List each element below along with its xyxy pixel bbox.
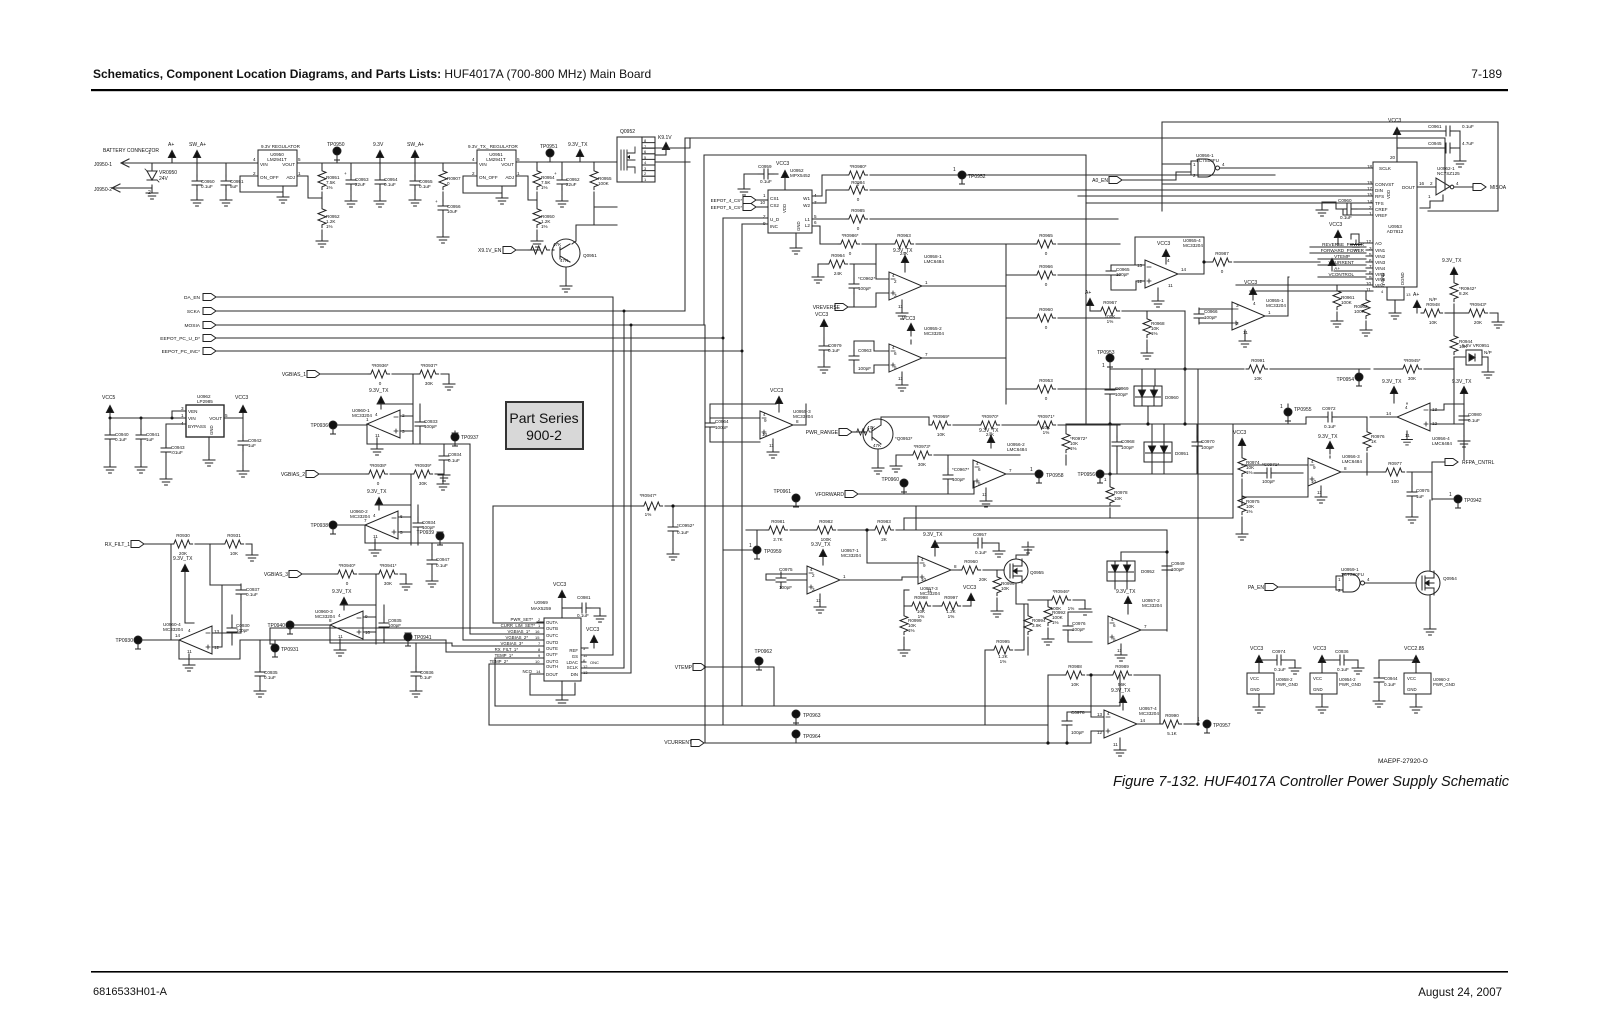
svg-text:PWR_SET*: PWR_SET* [511,617,534,622]
power arrow VCC3 [1162,250,1169,263]
svg-text:TP0930: TP0930 [115,638,133,644]
svg-text:5: 5 [814,214,817,219]
resistor R0931 [222,540,244,548]
svg-text:OUTE: OUTE [546,646,558,651]
svg-text:VCC3: VCC3 [1388,118,1402,124]
svg-text:TP0936: TP0936 [310,423,328,429]
testpoint TP0961 [792,494,800,507]
wire TEMP_2 loop [489,664,1048,725]
testpoint TP0936 [329,421,337,434]
svg-text:47K: 47K [553,242,562,247]
svg-text:VCC3: VCC3 [902,316,916,322]
capacitor C0955 [414,163,416,195]
capacitor C0980 [1463,404,1465,412]
resistor R0976 vertical [1366,417,1368,429]
zener VR0951 [1466,350,1482,365]
svg-text:NC7SZ125: NC7SZ125 [1437,171,1460,176]
svg-text:9.3V_TX: 9.3V_TX [979,428,999,434]
svg-text:R0995: R0995 [996,639,1010,644]
svg-text:R0984: R0984 [851,180,865,185]
svg-text:0.1uF: 0.1uF [115,437,127,442]
svg-text:MC33204: MC33204 [1139,711,1159,716]
resistor R0972 vertical [1065,425,1067,431]
svg-text:0.1uF: 0.1uF [1340,215,1352,220]
svg-text:5.1K: 5.1K [1167,731,1177,736]
svg-text:R0997: R0997 [944,595,958,600]
capacitor C0935 [259,640,261,668]
power arrow 9.3V_TX top [1450,268,1457,281]
svg-text:A+: A+ [1334,266,1340,271]
svg-text:VIN2: VIN2 [1375,254,1386,259]
connector MISOA [1454,186,1474,188]
svg-text:4: 4 [1253,301,1256,306]
capacitor C0930 [231,615,233,645]
svg-text:C0978: C0978 [1071,710,1085,715]
resistor R0961 vertical [1336,285,1338,288]
svg-text:5: 5 [978,481,981,486]
svg-text:OUTH: OUTH [546,664,558,669]
resistor 47K base [516,249,540,251]
svg-text:0.1uF: 0.1uF [420,675,432,680]
svg-text:0.1uF: 0.1uF [828,348,840,353]
svg-text:0: 0 [379,381,382,386]
svg-text:*R0971*: *R0971* [1037,414,1054,419]
svg-text:C0968: C0968 [1121,439,1135,444]
svg-text:13: 13 [1406,292,1411,297]
wire TEMP_1 loop [495,658,1120,706]
svg-text:1%: 1% [326,224,333,229]
svg-text:0: 0 [346,581,349,586]
resistor R0970 [978,421,1000,429]
power arrow VCC3 adc [1393,128,1400,141]
svg-text:AO: AO [1375,241,1382,246]
svg-text:VTEMP: VTEMP [675,665,693,671]
testpoint TP0952 [958,171,966,184]
svg-text:OUTC: OUTC [546,633,558,638]
wire fet drain up to rfpa node [1429,500,1431,571]
svg-text:9.3V_TX: 9.3V_TX [893,248,913,254]
svg-text:1%: 1% [326,185,333,190]
connector VREVERSE [835,304,848,311]
capacitor C0952b [672,506,674,549]
svg-text:14: 14 [1386,411,1392,416]
svg-text:*R0939*: *R0939* [414,463,431,468]
connector A0_EN [1109,177,1122,184]
svg-text:4: 4 [472,157,475,162]
svg-text:ON_OFF: ON_OFF [479,175,498,180]
resistor R0947 [493,505,641,507]
resistor R0945 [1374,368,1400,370]
svg-text:TP0953: TP0953 [1097,350,1115,356]
svg-text:MC33204: MC33204 [315,614,335,619]
svg-text:VCC5: VCC5 [102,395,116,401]
svg-text:0: 0 [849,251,852,256]
testpoint TP0962 [755,657,763,670]
svg-text:100pF: 100pF [1121,445,1134,450]
wire U_D INC taps [723,218,768,224]
capacitor C0970 [1196,424,1198,474]
capacitor C0951 [225,163,227,195]
svg-text:1%: 1% [1068,606,1075,611]
connector RX_FILT_1 [131,541,144,548]
svg-text:U0969: U0969 [534,600,548,605]
svg-text:CREF: CREF [1375,207,1388,212]
svg-text:1%: 1% [1107,319,1114,324]
svg-text:Q0952: Q0952 [620,129,635,135]
svg-text:RX_FILT_1: RX_FILT_1 [105,542,130,548]
resistor R0989 [1091,674,1110,676]
svg-text:1%: 1% [541,224,548,229]
svg-text:56K: 56K [1118,682,1127,687]
svg-text:12: 12 [583,664,588,669]
svg-text:*C0962*: *C0962* [858,276,875,281]
svg-text:14: 14 [1181,267,1187,272]
resistor R0954 [536,162,538,200]
svg-text:0: 0 [1045,325,1048,330]
svg-text:20K: 20K [1474,320,1483,325]
svg-text:100pF: 100pF [1262,479,1275,484]
svg-text:DOUT: DOUT [1402,185,1415,190]
svg-text:EEPOT_4_CS*: EEPOT_4_CS* [711,198,743,203]
svg-text:100pF: 100pF [388,623,401,628]
svg-text:6: 6 [814,220,817,225]
svg-text:2: 2 [1338,588,1341,593]
svg-text:MC33204: MC33204 [352,413,372,418]
svg-text:1: 1 [953,167,956,173]
svg-text:0: 0 [1221,269,1224,274]
svg-text:0.1uF: 0.1uF [1384,682,1396,687]
svg-text:1: 1 [298,171,301,176]
svg-text:11: 11 [375,433,380,438]
svg-text:VGBIAS_2: VGBIAS_2 [281,472,305,478]
svg-text:ADJ: ADJ [286,175,295,180]
power arrow VCC3 r0974 [1238,439,1245,452]
svg-text:SCLK: SCLK [567,665,578,670]
capacitor C0936 [415,643,417,668]
svg-text:4: 4 [375,412,378,417]
svg-text:2: 2 [472,171,475,176]
svg-text:1: 1 [181,413,184,418]
svg-text:C0957: C0957 [973,532,987,537]
footer rule [91,971,1508,973]
resistor R0963 [892,240,914,248]
svg-text:9.3V_TX: 9.3V_TX [923,532,943,538]
power arrow 9.3V_TX [901,256,908,269]
svg-text:9.3V_TX: 9.3V_TX [367,489,387,495]
svg-text:*R0947*: *R0947* [639,493,656,498]
capacitor C0966 [1199,309,1233,323]
svg-text:1%: 1% [1043,430,1050,435]
svg-text:ADJ: ADJ [505,175,514,180]
svg-text:R0964: R0964 [831,253,845,258]
svg-text:LMC6484: LMC6484 [1342,459,1362,464]
op-amp U0955-2 [889,344,922,372]
svg-text:22uF: 22uF [355,182,366,187]
svg-text:DIN: DIN [571,672,578,677]
power arrow 9.3V [376,151,383,164]
svg-text:1: 1 [1428,194,1431,199]
svg-text:VGBIAS_1*: VGBIAS_1* [508,629,531,634]
svg-text:16: 16 [1419,181,1425,186]
capacitor C0943 [161,442,171,458]
dual diode D0950 [1134,386,1162,406]
svg-text:14: 14 [1140,718,1146,723]
svg-text:9.3V_TX: 9.3V_TX [173,556,193,562]
svg-text:*C0952*: *C0952* [677,523,694,528]
connector RFPA_CNTRL [1432,462,1446,500]
testpoint TP0951 [546,149,554,162]
svg-text:C0974: C0974 [1272,649,1286,654]
wire output [922,244,1006,404]
svg-text:15: 15 [535,635,540,640]
svg-text:VREF: VREF [1375,213,1387,218]
svg-text:DOUT: DOUT [546,672,559,677]
connector VFORWARD [845,491,858,498]
AGND DGND labels [1380,272,1405,285]
svg-text:R0963: R0963 [897,233,911,238]
op-amp U0958-1 [889,272,922,300]
capacitor C0935b [383,605,385,643]
wire TP0957 vertical [1197,369,1199,724]
connector EEPOT_PC_INC* [203,348,216,355]
svg-text:100pF: 100pF [715,425,728,430]
resistor R0946 [1028,599,1049,601]
svg-text:10K: 10K [1001,586,1010,591]
wire output [1141,629,1167,631]
wire U0955-1 output [1265,277,1289,316]
resistor R0965 [1006,243,1034,245]
testpoint TP0955 [1284,408,1292,421]
svg-text:0.1uF: 0.1uF [677,530,689,535]
svg-text:TP0942: TP0942 [1464,498,1482,504]
mosfet Q0954 [1416,571,1440,595]
svg-text:9: 9 [764,418,767,423]
capacitor C0978 [1067,712,1091,743]
wire ON_OFF loop [240,176,283,192]
svg-text:1%: 1% [1000,659,1007,664]
svg-text:C0961: C0961 [1428,124,1442,129]
svg-text:*Q0953*: *Q0953* [895,436,913,441]
svg-text:10K: 10K [230,551,239,556]
svg-text:VCC: VCC [1250,676,1259,681]
power arrow 9.3V_TX b [1460,387,1467,400]
svg-text:R0981: R0981 [771,519,785,524]
capacitor C0940 [109,418,111,462]
connector SCKA [203,308,216,315]
connector EEPOT_PC_U_D* [203,335,216,342]
svg-text:C0934: C0934 [448,452,462,457]
ground below U0969 [561,681,563,695]
power arrow A+ [1086,299,1093,312]
testpoint TP0938 [329,521,337,534]
svg-text:*R0936*: *R0936* [371,363,388,368]
svg-text:SW_A+: SW_A+ [189,142,206,148]
testpoint TP0941 [404,633,412,646]
capacitor C0944 [1379,660,1416,674]
svg-text:MC33204: MC33204 [924,331,944,336]
svg-text:D0951: D0951 [1175,451,1189,456]
svg-text:20: 20 [1390,155,1396,160]
wire output vertical [470,444,544,634]
svg-text:7: 7 [1009,468,1012,473]
svg-text:LMC6484: LMC6484 [1432,441,1452,446]
svg-text:6: 6 [894,351,897,356]
svg-text:0: 0 [1045,282,1048,287]
svg-text:TP0952: TP0952 [968,174,986,180]
svg-text:7-189: 7-189 [1471,67,1502,81]
capacitor C0975 [776,572,786,588]
wire EEPOT_PC_INC* bus [216,224,742,706]
svg-text:0.1uF: 0.1uF [246,592,258,597]
resistor R0937 [417,370,439,378]
op-amp U0960-4 [179,626,212,654]
svg-text:9.3V_TX_ REGULATOR: 9.3V_TX_ REGULATOR [468,144,519,149]
svg-text:.01uF: .01uF [171,450,183,455]
svg-text:VCC3: VCC3 [963,585,977,591]
wire TP0956 rail [904,424,1233,518]
svg-text:DGND: DGND [1400,272,1405,285]
resistor R0988 [1048,675,1063,743]
svg-text:10K: 10K [937,432,946,437]
power arrow 9.3V_TX [1119,696,1126,709]
svg-text:C0969: C0969 [1115,386,1129,391]
svg-text:0.1uF: 0.1uF [384,182,396,187]
testpoint TP0959 [753,546,761,559]
svg-text:100pF: 100pF [858,366,871,371]
testpoint TP0963 [792,710,800,723]
capacitor C0941 [140,418,142,462]
power arrow VCC3 [558,591,565,604]
power arrow A+ pin8 [1328,259,1335,272]
capacitor C0979 [823,338,825,362]
connector MOSIA [203,322,216,329]
svg-text:0.1uF: 0.1uF [760,179,772,184]
svg-text:PA_EN: PA_EN [1248,585,1264,591]
capacitor C0981 [562,607,576,609]
svg-text:TP0956: TP0956 [1077,472,1095,478]
wire Q0952 to right bus [594,148,690,162]
svg-text:VOUT: VOUT [282,162,295,167]
transistor block Q0952 [617,137,642,182]
svg-text:10K: 10K [1254,376,1263,381]
power arrow VCC3 REF [590,636,597,649]
svg-text:10K: 10K [1429,320,1438,325]
resistor R0987 [1210,258,1232,266]
resistor R0907 [442,163,444,168]
svg-text:VGBIAS_1: VGBIAS_1 [282,372,306,378]
testpoint TP0960 [900,479,908,492]
svg-text:DIN: DIN [1375,188,1383,193]
svg-text:PWR_GND: PWR_GND [1433,682,1455,687]
svg-text:30K: 30K [918,462,927,467]
resistor R0930 [171,540,193,548]
resistor R0941 [376,570,398,578]
svg-text:DA_EN: DA_EN [184,295,201,301]
resistor R0980 [812,175,846,196]
svg-text:GND: GND [1407,687,1417,692]
wire EEPOT_PC_U_D* bus [216,218,723,725]
svg-text:9.3V: 9.3V [373,142,384,148]
svg-text:4: 4 [1311,459,1314,464]
svg-text:1%: 1% [1246,509,1253,514]
svg-text:MOSIA: MOSIA [185,323,201,329]
svg-text:R0948: R0948 [1426,302,1440,307]
wire MOSIA bus [216,155,1086,743]
power arrow VCC3 [781,171,788,184]
svg-text:MC33204: MC33204 [1183,243,1203,248]
resistor R0953 [1006,388,1034,390]
svg-text:R0960: R0960 [1039,307,1053,312]
power arrow SW_A+ 2 [411,151,418,164]
svg-text:11: 11 [1405,433,1410,438]
svg-text:1: 1 [1193,162,1196,167]
svg-text:R0988: R0988 [1068,664,1082,669]
svg-text:12: 12 [1097,730,1103,735]
wire A+ node vertical [1184,311,1186,424]
svg-text:0.1uF: 0.1uF [577,613,589,618]
ground below battery [146,188,158,199]
svg-text:1%: 1% [1151,331,1158,336]
svg-text:16: 16 [535,629,540,634]
wire VIN lines [1236,247,1366,291]
svg-text:0.1uF: 0.1uF [436,563,448,568]
connector EEPOT_4_CS* [743,197,756,204]
svg-text:W1: W1 [803,196,810,201]
wire -in node [1091,675,1104,717]
svg-text:0.1uF: 0.1uF [1468,418,1480,423]
connector VTEMP [693,664,706,671]
svg-text:VCC3: VCC3 [586,627,600,633]
svg-text:*R0973*: *R0973* [913,444,930,449]
svg-text:0.1uF: 0.1uF [975,550,987,555]
testpoint TP0954 [1355,373,1363,386]
power arrow VCC3 blk2 [1318,656,1325,669]
resistor R0936 [368,370,390,378]
svg-text:4: 4 [1222,162,1225,167]
svg-text:TP0960: TP0960 [881,477,899,483]
capacitor C0950 [196,163,198,195]
power arrow VCC3 ao [1334,231,1341,244]
svg-text:0.1uF: 0.1uF [448,458,460,463]
svg-text:L2: L2 [805,223,811,228]
svg-text:4: 4 [976,461,979,466]
svg-text:VCC: VCC [1313,676,1322,681]
svg-text:13: 13 [1097,712,1103,717]
svg-text:TC7S00FU: TC7S00FU [1341,572,1364,577]
power arrow VCC3 [820,320,827,333]
svg-text:CS1: CS1 [770,196,779,201]
svg-text:13: 13 [583,670,588,675]
op-amp U0955-3 [760,411,793,439]
wire to RX row [446,640,544,652]
svg-text:ONC: ONC [590,660,599,665]
op-amp U0956-4 [1397,403,1430,431]
svg-text:TP0962: TP0962 [754,649,772,655]
testpoint TP0958 [1006,473,1034,475]
svg-text:4: 4 [1167,258,1170,263]
svg-text:RFPA_CNTRL: RFPA_CNTRL [1462,460,1495,466]
svg-text:1uF: 1uF [1416,494,1424,499]
power arrow VCC5 [106,406,113,419]
svg-text:4: 4 [1111,617,1114,622]
svg-text:3: 3 [894,293,897,298]
svg-text:TP0959: TP0959 [764,549,782,555]
svg-text:MC33204: MC33204 [163,627,183,632]
svg-text:J0950-2: J0950-2 [94,187,112,193]
capacitor C0954 [379,163,381,196]
wire output vertical [463,543,544,640]
op-amp U0960-1 [367,410,400,438]
